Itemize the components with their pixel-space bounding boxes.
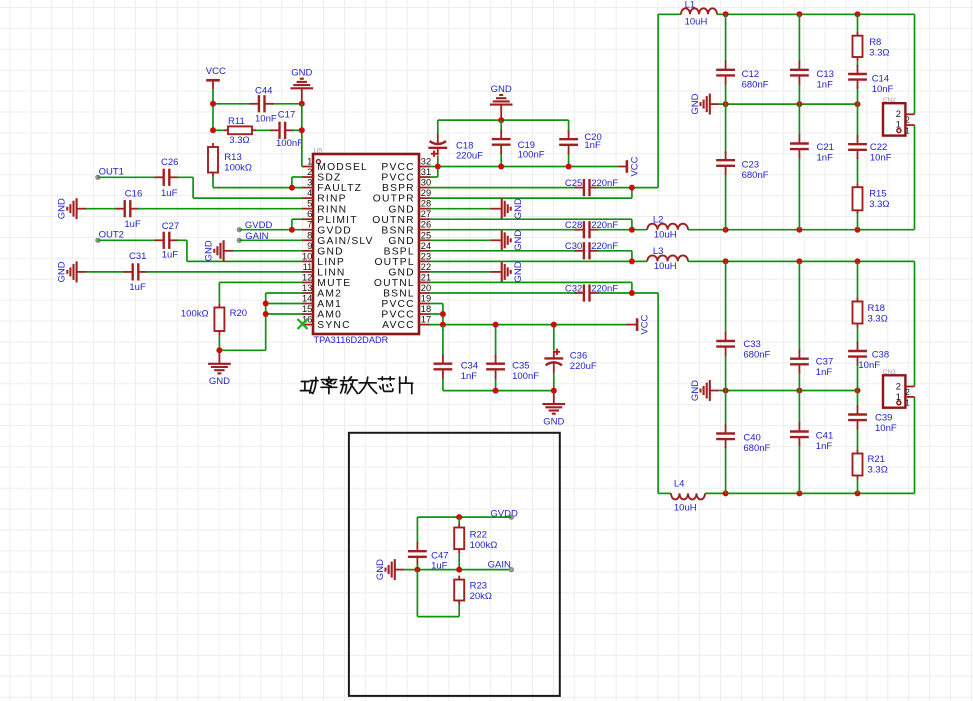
wire block1 right column lower xyxy=(914,125,916,230)
net port GAIN (box) xyxy=(509,567,513,571)
svg-text:22: 22 xyxy=(421,262,431,272)
svg-text:1nF: 1nF xyxy=(816,441,833,452)
ground GND (pin9) xyxy=(204,240,233,261)
svg-text:RINP: RINP xyxy=(317,194,346,205)
junction block2 top rail x=857 xyxy=(855,258,861,264)
wire C16 to RINN pin5 xyxy=(138,208,303,210)
svg-text:100kΩ: 100kΩ xyxy=(181,309,209,320)
svg-text:1: 1 xyxy=(905,399,910,408)
junction FAULTZ/SDZ xyxy=(289,185,295,191)
svg-text:CN2: CN2 xyxy=(883,97,896,104)
wire GVDD to pin7 and PLIMIT pin6 xyxy=(239,219,302,230)
wire C41 column xyxy=(798,391,800,494)
svg-text:C21: C21 xyxy=(817,142,834,153)
svg-text:AM1: AM1 xyxy=(317,299,342,310)
junction top rail x=857 xyxy=(855,11,861,17)
svg-text:L4: L4 xyxy=(674,479,685,490)
ground GND (RINN) xyxy=(57,198,86,219)
junction block2 bottom rail x=725 xyxy=(723,490,729,496)
wire OUTPL pin23 to L3 xyxy=(430,251,648,262)
resistor R15 xyxy=(853,183,863,214)
power VCC (top left) xyxy=(206,66,226,97)
junction gnd rail x=799 xyxy=(796,101,802,107)
svg-text:FAULTZ: FAULTZ xyxy=(317,183,362,194)
capacitor C36 (polarized) xyxy=(544,349,563,373)
svg-text:VCC: VCC xyxy=(206,66,226,77)
wire OUTPR pin29 / column to L1 xyxy=(430,14,658,198)
junction C18/PVCC xyxy=(435,164,441,170)
net port OUT1 xyxy=(96,175,100,179)
svg-text:MODSEL: MODSEL xyxy=(317,162,368,173)
ground GND (above C44) xyxy=(290,68,313,104)
wire C18 to PVCC xyxy=(437,156,439,167)
svg-text:10uH: 10uH xyxy=(674,503,697,514)
connector CN2 xyxy=(883,97,915,136)
wire C20 column xyxy=(568,120,570,166)
svg-text:RINN: RINN xyxy=(317,204,347,215)
svg-text:C35: C35 xyxy=(512,360,529,371)
wire C23 column xyxy=(725,104,727,230)
svg-text:TPA3116D2DADR: TPA3116D2DADR xyxy=(314,335,389,345)
svg-text:C39: C39 xyxy=(875,413,892,424)
wire R11 to C17 xyxy=(256,129,272,131)
wire block2 right column upper xyxy=(914,261,916,386)
capacitor C23 xyxy=(716,151,735,175)
svg-text:C17: C17 xyxy=(278,110,295,121)
wire GAIN to pin8 xyxy=(239,239,302,241)
svg-text:GND: GND xyxy=(690,380,701,401)
wire R22 leads xyxy=(458,517,460,570)
svg-text:C32: C32 xyxy=(565,283,582,294)
svg-text:C14: C14 xyxy=(872,74,889,85)
net port GVDD xyxy=(237,228,241,232)
svg-text:C37: C37 xyxy=(816,357,833,368)
junction pin17 xyxy=(440,322,446,328)
svg-text:AVCC: AVCC xyxy=(382,320,415,331)
junction pin18 xyxy=(440,311,446,317)
junction C19/PVCC xyxy=(498,164,504,170)
svg-text:3: 3 xyxy=(307,178,312,188)
wire to R11 xyxy=(213,129,224,131)
capacitor C18 (polarized) xyxy=(428,134,447,157)
svg-text:3.3Ω: 3.3Ω xyxy=(869,199,889,210)
svg-text:13: 13 xyxy=(302,283,312,293)
net port GVDD (box) xyxy=(509,515,513,519)
capacitor C22 xyxy=(848,135,867,159)
wire C35 column xyxy=(495,325,497,391)
svg-text:C38: C38 xyxy=(872,350,889,361)
junction GND rail xyxy=(498,117,504,123)
junction VCC/C44 xyxy=(210,101,216,107)
junction GAIN node xyxy=(456,567,462,573)
svg-text:R8: R8 xyxy=(869,37,881,48)
wire OUT1 to C26 xyxy=(98,176,157,178)
ground GND (above C19) xyxy=(490,84,513,120)
junction C44/GND xyxy=(299,101,305,107)
ground GND (R20) xyxy=(208,350,231,387)
svg-text:1nF: 1nF xyxy=(584,140,601,151)
chip pin numbers xyxy=(302,157,431,325)
ground GND (pin22) xyxy=(490,261,523,282)
resistor R21 xyxy=(853,450,863,480)
svg-text:GND: GND xyxy=(543,416,564,427)
junction C20/PVCC xyxy=(566,164,572,170)
svg-text:C26: C26 xyxy=(161,157,178,168)
junction R20/GND xyxy=(216,347,222,353)
svg-text:100nF: 100nF xyxy=(276,138,303,149)
svg-text:C31: C31 xyxy=(129,251,146,262)
svg-text:6: 6 xyxy=(307,209,312,219)
wire block2 gnd rail xyxy=(719,390,857,392)
svg-text:GND: GND xyxy=(291,68,312,79)
wire C26 to RINP pin4 xyxy=(177,177,303,198)
svg-text:19: 19 xyxy=(421,294,431,304)
svg-text:2: 2 xyxy=(905,116,910,125)
junction C36 bottom xyxy=(551,388,557,394)
ground GND (LINN) xyxy=(57,261,86,282)
svg-text:11: 11 xyxy=(303,262,313,272)
wire GVDD row / C47 top xyxy=(417,517,511,544)
svg-text:1uF: 1uF xyxy=(124,219,141,230)
svg-text:OUTPR: OUTPR xyxy=(373,194,415,205)
svg-text:C34: C34 xyxy=(461,360,478,371)
capacitor C17 xyxy=(270,122,294,139)
wire to C18 xyxy=(437,120,439,133)
svg-text:30: 30 xyxy=(421,178,431,188)
wire L3 out / block2 top rail xyxy=(688,260,915,262)
junction gnd rail x=857 xyxy=(855,101,861,107)
junction AM0 xyxy=(263,311,269,317)
svg-text:3.3Ω: 3.3Ω xyxy=(869,47,889,58)
chip pin names xyxy=(317,162,415,331)
svg-text:C22: C22 xyxy=(870,142,887,153)
capacitor C33 xyxy=(716,332,735,356)
svg-text:SDZ: SDZ xyxy=(317,173,341,184)
resistor R8 xyxy=(853,32,863,61)
svg-text:3.3Ω: 3.3Ω xyxy=(868,313,888,324)
junction block2 gnd rail x=725 xyxy=(723,388,729,394)
wire BSPR pin30 to C25 xyxy=(430,187,577,189)
svg-text:17: 17 xyxy=(421,315,431,325)
svg-text:1uF: 1uF xyxy=(129,282,146,293)
svg-text:14: 14 xyxy=(302,294,312,304)
svg-text:21: 21 xyxy=(421,272,431,282)
wire C47 bottom xyxy=(416,564,418,570)
svg-text:680nF: 680nF xyxy=(742,79,769,90)
svg-text:C25: C25 xyxy=(565,178,582,189)
svg-text:R11: R11 xyxy=(228,116,245,127)
svg-text:C36: C36 xyxy=(570,350,587,361)
svg-text:C30: C30 xyxy=(565,241,582,252)
svg-text:2: 2 xyxy=(307,167,312,177)
svg-text:GVDD: GVDD xyxy=(317,225,352,236)
svg-text:9: 9 xyxy=(307,241,312,251)
svg-text:R15: R15 xyxy=(869,188,886,199)
wire C21 column xyxy=(798,104,800,230)
wire PVCC pins19/18 and AVCC pin17 xyxy=(430,304,626,325)
svg-text:LINN: LINN xyxy=(317,268,345,279)
svg-text:R22: R22 xyxy=(470,529,487,540)
svg-text:28: 28 xyxy=(421,199,431,209)
junction R11 left xyxy=(210,127,216,133)
svg-text:C16: C16 xyxy=(125,188,142,199)
wire C40 column xyxy=(725,391,727,494)
svg-text:100nF: 100nF xyxy=(512,371,539,382)
wire C34 column xyxy=(442,325,444,391)
svg-text:10uH: 10uH xyxy=(685,17,708,28)
junction OUTPR/C25 xyxy=(629,185,635,191)
resistor R18 xyxy=(853,298,863,328)
svg-text:GND: GND xyxy=(388,204,414,215)
detail box (gain select) xyxy=(349,433,560,696)
svg-text:4: 4 xyxy=(307,188,312,198)
svg-text:OUTPL: OUTPL xyxy=(374,257,414,268)
svg-text:10uH: 10uH xyxy=(654,229,677,240)
wire BSNR pin26 to C28 xyxy=(430,229,577,231)
svg-text:C23: C23 xyxy=(742,160,759,171)
capacitor C14 xyxy=(848,65,867,89)
svg-text:GND: GND xyxy=(388,268,414,279)
svg-text:VCC: VCC xyxy=(640,314,651,334)
capacitor C37 xyxy=(790,350,809,374)
svg-text:100kΩ: 100kΩ xyxy=(224,163,252,174)
net port GAIN xyxy=(237,238,241,242)
wire R13 to FAULTZ pin3 and SDZ pin2 xyxy=(213,177,302,188)
svg-text:2: 2 xyxy=(896,109,901,119)
inductor L2 xyxy=(647,224,688,230)
wire GND pin25 xyxy=(430,239,491,241)
capacitor C27 xyxy=(155,232,179,249)
junction gnd rail x=725 xyxy=(723,101,729,107)
wire C39 column xyxy=(857,391,859,450)
svg-text:PLIMIT: PLIMIT xyxy=(317,215,357,226)
wire C36 column xyxy=(553,325,555,391)
svg-text:R23: R23 xyxy=(470,581,487,592)
svg-text:18: 18 xyxy=(421,304,431,314)
svg-text:C13: C13 xyxy=(817,69,834,80)
wire block1 top rail xyxy=(717,14,915,114)
capacitor C20 xyxy=(559,130,578,154)
wire block2 right column lower xyxy=(914,397,916,494)
wire C22 column xyxy=(857,104,859,183)
junction block2 gnd rail x=799 xyxy=(796,388,802,394)
wire C33 column xyxy=(725,261,727,390)
svg-text:PVCC: PVCC xyxy=(381,162,414,173)
wire block1 gnd rail xyxy=(719,103,857,105)
ground GND (pin28) xyxy=(490,198,523,219)
wire GND pin22 xyxy=(430,271,491,273)
svg-text:10nF: 10nF xyxy=(872,84,894,95)
svg-text:BSNL: BSNL xyxy=(383,289,415,300)
wire C37 column xyxy=(798,261,800,390)
svg-text:C33: C33 xyxy=(743,339,760,350)
svg-text:GND: GND xyxy=(513,198,524,219)
wire GAIN row xyxy=(404,569,511,571)
ground GND (block1) xyxy=(690,93,719,114)
inductor L1 xyxy=(681,8,717,14)
wire C27 to LINP pin10 xyxy=(177,240,303,261)
svg-text:GND: GND xyxy=(375,559,386,580)
svg-text:10nF: 10nF xyxy=(858,360,880,371)
svg-text:1: 1 xyxy=(307,157,312,167)
capacitor C30 xyxy=(575,242,599,259)
inductor L3 xyxy=(647,255,688,261)
svg-text:GND: GND xyxy=(57,198,68,219)
svg-text:8: 8 xyxy=(307,230,312,240)
svg-text:GND: GND xyxy=(388,236,414,247)
svg-text:10: 10 xyxy=(302,251,312,261)
svg-text:R13: R13 xyxy=(224,152,241,163)
svg-text:31: 31 xyxy=(421,167,431,177)
svg-text:OUTNR: OUTNR xyxy=(372,215,415,226)
svg-text:GND: GND xyxy=(204,240,215,261)
power VCC (PVCC) xyxy=(619,156,641,176)
junction OUTNR/C28/L2 xyxy=(629,227,635,233)
svg-text:23: 23 xyxy=(421,251,431,261)
wire GND to pin9 xyxy=(233,250,302,252)
svg-text:32: 32 xyxy=(421,157,431,167)
capacitor C39 xyxy=(848,405,867,429)
svg-text:10nF: 10nF xyxy=(255,113,277,124)
chip pins (stubs) xyxy=(302,167,430,325)
wire R23 bottom loop xyxy=(417,570,459,617)
svg-text:AM2: AM2 xyxy=(317,289,342,300)
junction block2 bottom rail x=857 xyxy=(855,490,861,496)
junction C17/pin1 xyxy=(299,127,305,133)
junction bottom rail x=799 xyxy=(796,227,802,233)
svg-text:LINP: LINP xyxy=(317,257,345,268)
wire BSNL pin20 to C32 xyxy=(430,292,577,294)
wire OUTNR pin27 to L2 xyxy=(430,219,648,230)
capacitor C41 xyxy=(790,422,809,446)
svg-text:C44: C44 xyxy=(255,86,272,97)
connector CN3 xyxy=(883,369,915,408)
junction top rail x=725 xyxy=(723,11,729,17)
wire to R8 xyxy=(857,14,859,31)
junction C35 top xyxy=(493,322,499,328)
capacitor C16 xyxy=(116,200,140,217)
svg-text:GND: GND xyxy=(57,261,68,282)
junction GVDD/PLIMIT xyxy=(289,227,295,233)
junction R22 top xyxy=(456,514,462,520)
capacitor C19 xyxy=(492,130,511,154)
svg-text:1nF: 1nF xyxy=(817,152,834,163)
svg-text:PVCC: PVCC xyxy=(381,310,414,321)
svg-text:L2: L2 xyxy=(653,215,664,226)
svg-text:L1: L1 xyxy=(685,0,696,10)
wire VCC node / C44 row xyxy=(213,96,302,130)
svg-text:3.3Ω: 3.3Ω xyxy=(229,135,249,146)
op-amp U5 TPA3116D2DADR chip body xyxy=(313,154,419,334)
junction bottom rail x=725 xyxy=(723,227,729,233)
svg-text:C12: C12 xyxy=(742,69,759,80)
power VCC (AVCC) xyxy=(626,314,651,334)
svg-text:15: 15 xyxy=(302,304,312,314)
svg-text:10uH: 10uH xyxy=(654,261,677,272)
capacitor C21 xyxy=(790,134,809,158)
capacitor C26 xyxy=(155,169,179,186)
svg-text:1nF: 1nF xyxy=(817,79,834,90)
svg-text:680nF: 680nF xyxy=(743,443,770,454)
resistor R22 xyxy=(454,524,464,554)
wire C17 node to MODSEL pin1 xyxy=(292,104,303,167)
svg-text:25: 25 xyxy=(421,230,431,240)
svg-text:GND: GND xyxy=(491,84,512,95)
junction AM1 xyxy=(263,301,269,307)
junction OUTNL/C32 xyxy=(629,290,635,296)
capacitor C47 xyxy=(408,542,427,566)
capacitor C28 xyxy=(575,221,599,238)
junction C35 bottom xyxy=(493,388,499,394)
svg-text:1nF: 1nF xyxy=(816,367,833,378)
wire C12 column xyxy=(725,14,727,104)
wire GND to C31 xyxy=(86,271,126,273)
svg-text:BSPL: BSPL xyxy=(384,246,415,257)
svg-text:20: 20 xyxy=(421,283,431,293)
wire R8 to C14 to gnd rail xyxy=(857,61,859,104)
wire to R18 xyxy=(857,261,859,297)
wire to L1 xyxy=(658,13,681,15)
junction top rail x=799 xyxy=(796,11,802,17)
svg-text:220uF: 220uF xyxy=(570,361,597,372)
no-connect X on pin 16 SYNC xyxy=(298,319,308,329)
svg-text:12: 12 xyxy=(302,272,312,282)
wire AVCC decoupling gnd rail xyxy=(443,390,554,392)
svg-text:R21: R21 xyxy=(868,454,885,465)
junction C36 top xyxy=(551,322,557,328)
capacitor C25 xyxy=(575,179,599,196)
svg-text:OUT2: OUT2 xyxy=(99,230,124,241)
wire OUTNL pin21 / column to L4 xyxy=(430,282,671,493)
junction block2 gnd rail x=857 xyxy=(855,388,861,394)
svg-text:24: 24 xyxy=(421,241,431,251)
junction OUTPL/C30/L3 xyxy=(629,258,635,264)
capacitor C13 xyxy=(790,61,809,85)
svg-text:26: 26 xyxy=(421,220,431,230)
svg-text:GND: GND xyxy=(513,230,524,251)
svg-text:GND: GND xyxy=(690,93,701,114)
svg-text:5: 5 xyxy=(307,199,312,209)
svg-text:GVDD: GVDD xyxy=(490,509,518,520)
wire C38 to gnd rail xyxy=(857,364,859,391)
svg-text:1: 1 xyxy=(905,126,910,135)
svg-text:C27: C27 xyxy=(162,221,179,232)
junction block2 top rail x=799 xyxy=(796,258,802,264)
net port OUT2 xyxy=(96,238,100,242)
wire GND pin28 xyxy=(430,208,491,210)
wire R18 to C38 xyxy=(857,328,859,344)
svg-text:GND: GND xyxy=(317,246,343,257)
ground GND (C36) xyxy=(542,391,565,428)
capacitor C31 xyxy=(124,263,148,280)
wire C31 to LINN pin11 xyxy=(146,271,303,273)
svg-text:L3: L3 xyxy=(653,246,664,257)
svg-text:680nF: 680nF xyxy=(743,349,770,360)
svg-text:C41: C41 xyxy=(816,430,833,441)
svg-text:OUTNL: OUTNL xyxy=(374,278,415,289)
svg-text:PVCC: PVCC xyxy=(381,299,414,310)
wire GND rail above C18/C19/C20 xyxy=(438,119,569,121)
capacitor C40 xyxy=(716,424,735,448)
svg-text:OUT1: OUT1 xyxy=(99,167,124,178)
svg-text:2: 2 xyxy=(905,388,910,397)
wire R15 to bottom rail xyxy=(857,214,859,229)
junction bottom rail x=857 xyxy=(855,227,861,233)
svg-text:U5: U5 xyxy=(314,148,323,155)
capacitor C34 xyxy=(434,355,453,379)
wire GND to C16 xyxy=(86,208,118,210)
svg-text:C28: C28 xyxy=(565,220,582,231)
